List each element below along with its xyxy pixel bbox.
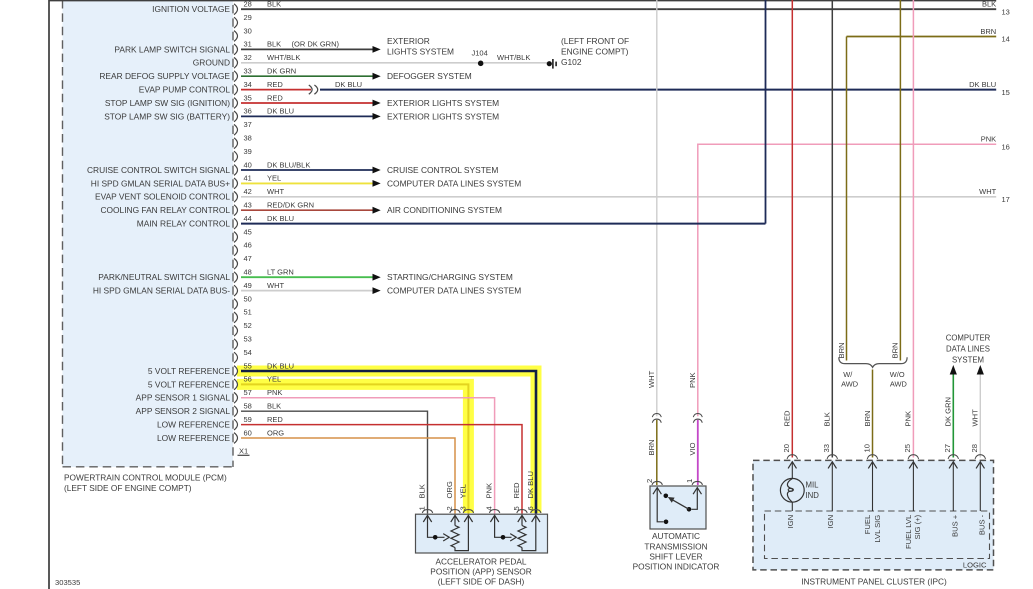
svg-text:5 VOLT REFERENCE: 5 VOLT REFERENCE: [148, 379, 230, 389]
svg-text:PNK: PNK: [981, 135, 996, 144]
svg-text:STOP LAMP SW SIG (BATTERY): STOP LAMP SW SIG (BATTERY): [104, 111, 230, 121]
svg-text:BLK: BLK: [982, 0, 996, 9]
svg-text:BUS +: BUS +: [951, 514, 960, 537]
svg-text:29: 29: [244, 13, 252, 22]
svg-text:60: 60: [244, 428, 252, 437]
svg-text:51: 51: [244, 308, 252, 317]
svg-text:DK BLU: DK BLU: [526, 471, 535, 498]
svg-text:CRUISE CONTROL SWITCH SIGNAL: CRUISE CONTROL SWITCH SIGNAL: [87, 165, 230, 175]
svg-text:RED: RED: [512, 482, 521, 499]
svg-text:DK BLU: DK BLU: [267, 107, 294, 116]
svg-text:30: 30: [244, 26, 252, 35]
svg-text:EVAP VENT SOLENOID CONTROL: EVAP VENT SOLENOID CONTROL: [95, 192, 230, 202]
svg-text:(OR DK GRN): (OR DK GRN): [292, 40, 340, 49]
svg-text:303535: 303535: [55, 578, 80, 587]
svg-text:3: 3: [458, 506, 467, 510]
svg-text:IND: IND: [806, 491, 820, 500]
svg-text:PNK: PNK: [267, 388, 282, 397]
svg-text:49: 49: [244, 281, 252, 290]
svg-text:25: 25: [903, 444, 912, 452]
svg-text:57: 57: [244, 388, 252, 397]
svg-text:W/: W/: [843, 370, 853, 379]
svg-text:SYSTEM: SYSTEM: [952, 355, 984, 364]
svg-text:34: 34: [244, 80, 252, 89]
svg-text:32: 32: [244, 53, 252, 62]
svg-text:39: 39: [244, 147, 252, 156]
svg-text:COMPUTER DATA LINES SYSTEM: COMPUTER DATA LINES SYSTEM: [387, 178, 521, 188]
svg-text:VIO: VIO: [688, 442, 697, 455]
svg-text:RED: RED: [267, 415, 283, 424]
svg-text:HI SPD GMLAN SERIAL DATA BUS+: HI SPD GMLAN SERIAL DATA BUS+: [91, 178, 230, 188]
svg-text:5: 5: [512, 506, 521, 510]
svg-text:WHT: WHT: [979, 187, 996, 196]
svg-text:LVL SIG: LVL SIG: [873, 515, 882, 543]
svg-text:4: 4: [485, 506, 494, 510]
svg-text:RED: RED: [267, 80, 283, 89]
svg-text:45: 45: [244, 227, 252, 236]
svg-text:WHT: WHT: [267, 281, 284, 290]
svg-text:DK BLU: DK BLU: [969, 80, 996, 89]
svg-text:BLK: BLK: [823, 412, 832, 426]
svg-text:ENGINE COMPT): ENGINE COMPT): [561, 47, 629, 57]
svg-text:BRN: BRN: [837, 342, 846, 358]
svg-text:DK BLU: DK BLU: [267, 361, 294, 370]
svg-text:BLK: BLK: [267, 0, 281, 9]
svg-text:1: 1: [685, 479, 694, 483]
svg-text:RED/DK GRN: RED/DK GRN: [267, 201, 314, 210]
svg-text:5 VOLT REFERENCE: 5 VOLT REFERENCE: [148, 366, 230, 376]
svg-text:DK GRN: DK GRN: [944, 397, 953, 427]
svg-text:16: 16: [1002, 143, 1010, 152]
svg-text:POSITION INDICATOR: POSITION INDICATOR: [633, 562, 720, 572]
svg-text:POWERTRAIN CONTROL MODULE (PCM: POWERTRAIN CONTROL MODULE (PCM): [64, 473, 227, 483]
svg-text:PARK LAMP SWITCH SIGNAL: PARK LAMP SWITCH SIGNAL: [114, 44, 230, 54]
svg-text:58: 58: [244, 402, 252, 411]
svg-text:ORG: ORG: [445, 481, 454, 498]
svg-text:44: 44: [244, 214, 252, 223]
svg-text:INSTRUMENT PANEL CLUSTER (IPC): INSTRUMENT PANEL CLUSTER (IPC): [801, 576, 947, 586]
svg-text:48: 48: [244, 268, 252, 277]
svg-text:BRN: BRN: [891, 342, 900, 358]
svg-text:IGN: IGN: [786, 515, 795, 529]
svg-text:LOGIC: LOGIC: [963, 561, 987, 570]
svg-text:35: 35: [244, 93, 252, 102]
svg-text:13: 13: [1002, 7, 1010, 16]
svg-text:BLK: BLK: [267, 40, 281, 49]
svg-text:50: 50: [244, 294, 252, 303]
svg-text:(LEFT SIDE OF ENGINE COMPT): (LEFT SIDE OF ENGINE COMPT): [64, 483, 192, 493]
svg-text:15: 15: [1002, 88, 1010, 97]
svg-text:2: 2: [445, 506, 454, 510]
svg-text:DATA LINES: DATA LINES: [946, 344, 990, 353]
svg-text:DK BLU: DK BLU: [267, 214, 294, 223]
svg-text:EXTERIOR LIGHTS SYSTEM: EXTERIOR LIGHTS SYSTEM: [387, 111, 499, 121]
svg-text:28: 28: [244, 0, 252, 9]
svg-text:41: 41: [244, 174, 252, 183]
svg-text:IGN: IGN: [826, 515, 835, 529]
svg-text:EXTERIOR: EXTERIOR: [387, 36, 430, 46]
svg-text:17: 17: [1002, 195, 1010, 204]
svg-text:APP SENSOR 1 SIGNAL: APP SENSOR 1 SIGNAL: [136, 393, 231, 403]
svg-text:AIR CONDITIONING SYSTEM: AIR CONDITIONING SYSTEM: [387, 205, 502, 215]
svg-text:2: 2: [645, 479, 654, 483]
svg-text:37: 37: [244, 120, 252, 129]
svg-text:LOW REFERENCE: LOW REFERENCE: [157, 420, 230, 430]
svg-text:DEFOGGER SYSTEM: DEFOGGER SYSTEM: [387, 71, 472, 81]
svg-text:G102: G102: [561, 57, 582, 67]
svg-text:38: 38: [244, 134, 252, 143]
svg-text:AWD: AWD: [841, 379, 858, 388]
svg-text:10: 10: [862, 444, 871, 452]
svg-text:EVAP PUMP CONTROL: EVAP PUMP CONTROL: [139, 85, 231, 95]
svg-text:YEL: YEL: [267, 174, 281, 183]
svg-text:33: 33: [244, 67, 252, 76]
svg-text:42: 42: [244, 187, 252, 196]
svg-text:SHIFT LEVER: SHIFT LEVER: [649, 552, 702, 562]
svg-text:TRANSMISSION: TRANSMISSION: [644, 542, 707, 552]
svg-text:DK BLU/BLK: DK BLU/BLK: [267, 160, 310, 169]
svg-text:52: 52: [244, 321, 252, 330]
svg-text:DK GRN: DK GRN: [267, 67, 296, 76]
svg-text:40: 40: [244, 160, 252, 169]
svg-text:(LEFT SIDE OF DASH): (LEFT SIDE OF DASH): [438, 577, 525, 587]
svg-text:PNK: PNK: [485, 483, 494, 499]
svg-text:PNK: PNK: [688, 372, 697, 388]
svg-text:IGNITION VOLTAGE: IGNITION VOLTAGE: [152, 4, 230, 14]
svg-text:BLK: BLK: [267, 402, 281, 411]
svg-text:36: 36: [244, 107, 252, 116]
svg-text:COMPUTER DATA LINES SYSTEM: COMPUTER DATA LINES SYSTEM: [387, 286, 521, 296]
svg-text:REAR DEFOG SUPPLY VOLTAGE: REAR DEFOG SUPPLY VOLTAGE: [99, 71, 230, 81]
svg-text:27: 27: [943, 444, 952, 452]
svg-text:53: 53: [244, 335, 252, 344]
svg-text:BRN: BRN: [980, 27, 996, 36]
svg-text:MAIN RELAY CONTROL: MAIN RELAY CONTROL: [137, 219, 231, 229]
svg-text:WHT: WHT: [647, 370, 656, 388]
svg-text:YEL: YEL: [267, 375, 281, 384]
svg-text:WHT: WHT: [267, 187, 284, 196]
svg-text:FUEL LVL: FUEL LVL: [904, 515, 913, 549]
svg-text:47: 47: [244, 254, 252, 263]
svg-text:14: 14: [1002, 35, 1010, 44]
svg-text:BRN: BRN: [647, 439, 656, 455]
svg-text:(LEFT FRONT OF: (LEFT FRONT OF: [561, 36, 629, 46]
svg-text:BRN: BRN: [863, 410, 872, 426]
svg-text:ORG: ORG: [267, 428, 284, 437]
svg-text:POSITION (APP) SENSOR: POSITION (APP) SENSOR: [430, 567, 531, 577]
svg-text:EXTERIOR LIGHTS SYSTEM: EXTERIOR LIGHTS SYSTEM: [387, 98, 499, 108]
svg-text:DK BLU: DK BLU: [335, 80, 362, 89]
svg-text:59: 59: [244, 415, 252, 424]
svg-text:WHT/BLK: WHT/BLK: [497, 53, 530, 62]
svg-text:RED: RED: [267, 93, 283, 102]
svg-text:W/O: W/O: [890, 370, 905, 379]
svg-text:BLK: BLK: [418, 484, 427, 498]
svg-text:AWD: AWD: [890, 379, 907, 388]
svg-text:6: 6: [526, 506, 535, 510]
svg-text:1: 1: [418, 506, 427, 510]
svg-text:COMPUTER: COMPUTER: [946, 333, 991, 342]
svg-text:ACCELERATOR PEDAL: ACCELERATOR PEDAL: [436, 557, 527, 567]
svg-text:AUTOMATIC: AUTOMATIC: [652, 531, 700, 541]
svg-text:31: 31: [244, 40, 252, 49]
svg-text:FUEL: FUEL: [863, 515, 872, 534]
svg-text:PNK: PNK: [904, 411, 913, 427]
svg-text:LT GRN: LT GRN: [267, 268, 294, 277]
svg-text:28: 28: [970, 444, 979, 452]
svg-text:33: 33: [822, 444, 831, 452]
svg-text:LIGHTS SYSTEM: LIGHTS SYSTEM: [387, 47, 454, 57]
svg-text:WHT: WHT: [971, 409, 980, 427]
svg-text:43: 43: [244, 201, 252, 210]
svg-text:YEL: YEL: [458, 484, 467, 498]
svg-text:HI SPD GMLAN SERIAL DATA BUS-: HI SPD GMLAN SERIAL DATA BUS-: [93, 286, 230, 296]
svg-text:56: 56: [244, 375, 252, 384]
svg-text:SIG (+): SIG (+): [913, 514, 922, 539]
svg-text:RED: RED: [783, 410, 792, 427]
svg-text:46: 46: [244, 241, 252, 250]
svg-text:LOW REFERENCE: LOW REFERENCE: [157, 433, 230, 443]
svg-text:20: 20: [782, 444, 791, 452]
svg-text:X1: X1: [239, 446, 248, 455]
svg-text:APP SENSOR 2 SIGNAL: APP SENSOR 2 SIGNAL: [136, 406, 231, 416]
svg-text:STARTING/CHARGING SYSTEM: STARTING/CHARGING SYSTEM: [387, 272, 513, 282]
svg-text:J104: J104: [472, 48, 488, 57]
svg-text:54: 54: [244, 348, 252, 357]
svg-text:WHT/BLK: WHT/BLK: [267, 53, 300, 62]
svg-text:CRUISE CONTROL SYSTEM: CRUISE CONTROL SYSTEM: [387, 165, 498, 175]
svg-text:PARK/NEUTRAL SWITCH SIGNAL: PARK/NEUTRAL SWITCH SIGNAL: [98, 272, 230, 282]
svg-text:BUS -: BUS -: [977, 514, 986, 535]
svg-text:GROUND: GROUND: [193, 58, 230, 68]
svg-text:55: 55: [244, 361, 252, 370]
svg-text:STOP LAMP SW SIG (IGNITION): STOP LAMP SW SIG (IGNITION): [105, 98, 230, 108]
svg-text:MIL: MIL: [806, 481, 820, 490]
svg-text:COOLING FAN RELAY CONTROL: COOLING FAN RELAY CONTROL: [100, 205, 230, 215]
